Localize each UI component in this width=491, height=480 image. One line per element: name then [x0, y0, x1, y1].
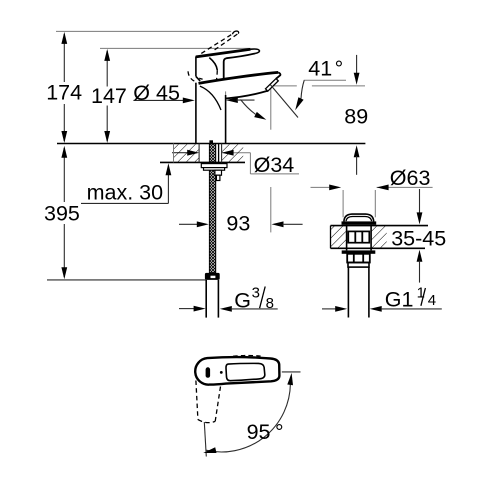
svg-text:89: 89 [344, 105, 368, 129]
svg-text:95: 95 [247, 420, 271, 444]
svg-text:35-45: 35-45 [391, 227, 446, 251]
svg-text:41: 41 [308, 56, 332, 80]
svg-text:174: 174 [46, 80, 82, 104]
svg-text:°: ° [335, 56, 344, 80]
svg-text:4: 4 [428, 292, 436, 309]
svg-text:93: 93 [226, 212, 250, 236]
svg-text:395: 395 [44, 201, 80, 225]
svg-text:147: 147 [91, 84, 127, 108]
svg-text:Ø 45: Ø 45 [133, 81, 180, 105]
svg-text:G: G [234, 289, 251, 313]
svg-text:Ø34: Ø34 [254, 153, 295, 177]
svg-text:8: 8 [266, 295, 274, 312]
svg-text:°: ° [275, 420, 284, 444]
svg-text:Ø63: Ø63 [390, 166, 431, 190]
svg-text:3: 3 [252, 285, 260, 302]
svg-text:max. 30: max. 30 [87, 180, 164, 204]
svg-text:G1: G1 [385, 288, 414, 312]
